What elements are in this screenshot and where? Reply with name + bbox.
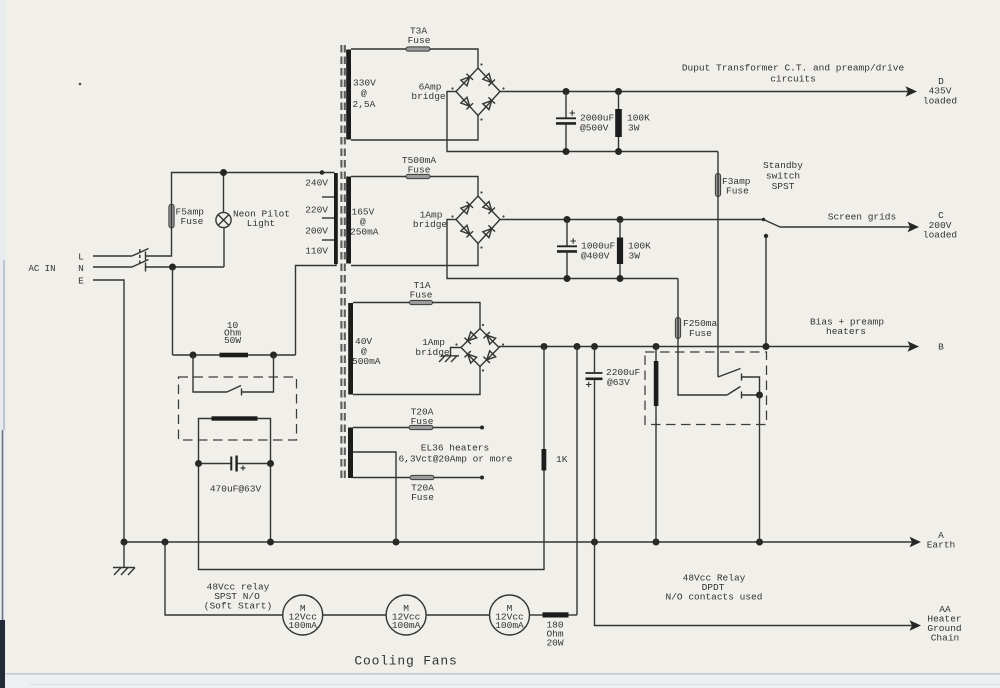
svg-text:100mA: 100mA bbox=[392, 620, 421, 631]
svg-text:50W: 50W bbox=[224, 335, 241, 346]
svg-text:N: N bbox=[78, 263, 84, 274]
junction R3 top node bbox=[617, 216, 624, 223]
junction R2 top node bbox=[615, 88, 622, 95]
wire relay feed down-right to 1K bbox=[199, 464, 545, 570]
transformer T1 heater winding bbox=[348, 428, 353, 479]
relay RL1 coil leads bbox=[199, 419, 271, 464]
wire heater center tap bbox=[353, 452, 396, 542]
relay RL2 coil top lead bbox=[655, 347, 657, 362]
wire M2 to M3 bbox=[426, 614, 489, 616]
junction R3 bottom node bbox=[617, 275, 624, 282]
wire BR1 minus return bbox=[447, 92, 718, 152]
wire sec3 bottom to bridge bbox=[353, 367, 480, 395]
junction contacts common node bbox=[756, 392, 763, 399]
fuse F7 T1A body bbox=[410, 300, 433, 304]
wire F250ma to rail B bbox=[677, 339, 679, 347]
junction C2 top node bbox=[564, 216, 571, 223]
svg-text:100mA: 100mA bbox=[288, 620, 317, 631]
svg-text:6,3Vct@20Amp or more: 6,3Vct@20Amp or more bbox=[398, 454, 512, 465]
bridge BR1 terminal marks bbox=[480, 63, 482, 65]
resistor R3 100K top lead bbox=[619, 220, 621, 238]
svg-text:Fuse: Fuse bbox=[408, 164, 431, 175]
terminal heater top bbox=[480, 426, 484, 430]
wire N in bbox=[93, 266, 132, 268]
capacitor C3 bottom lead to earth bbox=[594, 380, 596, 542]
primary tap 220V tick bbox=[322, 196, 334, 198]
motor M3 bbox=[490, 595, 530, 635]
svg-text:3W: 3W bbox=[629, 251, 641, 262]
junction 470uF return node bbox=[267, 539, 274, 546]
svg-text:240V: 240V bbox=[305, 178, 328, 189]
arrow C bbox=[908, 222, 920, 232]
capacitor C2 1000uF plates bbox=[557, 245, 577, 247]
wire heater top to fuse bbox=[353, 427, 409, 429]
svg-text:Standby: Standby bbox=[763, 160, 803, 171]
junction cap left node bbox=[195, 460, 202, 467]
resistor R1 10 Ohm 50W body bbox=[220, 353, 249, 358]
svg-text:Fuse: Fuse bbox=[411, 492, 434, 503]
svg-text:E: E bbox=[78, 276, 84, 287]
ground symbol bbox=[113, 542, 135, 575]
svg-text:20W: 20W bbox=[546, 638, 563, 649]
junction relay coil return node bbox=[653, 539, 660, 546]
wire sec3 top to fuse bbox=[353, 302, 410, 304]
wire standby to rail B bbox=[765, 236, 767, 347]
resistor R5 1K body bbox=[542, 449, 547, 471]
svg-text:SPST: SPST bbox=[772, 181, 795, 192]
svg-text:200V: 200V bbox=[305, 226, 328, 237]
fuse F8 T20A lower body bbox=[410, 475, 434, 479]
svg-text:switch: switch bbox=[766, 171, 800, 182]
switch SW1 N contact tick bbox=[145, 263, 147, 272]
wire sec2 top to fuse bbox=[351, 176, 406, 178]
junction N node bbox=[169, 264, 176, 271]
relay RL2 contact 1 tick bbox=[741, 374, 743, 381]
svg-text:250mA: 250mA bbox=[350, 227, 379, 238]
relay RL2 coil body bbox=[654, 361, 659, 406]
resistor R4 180 Ohm body bbox=[543, 612, 569, 617]
svg-text:circuits: circuits bbox=[770, 74, 816, 85]
svg-text:3W: 3W bbox=[628, 123, 640, 134]
svg-text:AC IN: AC IN bbox=[28, 264, 55, 274]
relay RL1 contact tick bbox=[241, 389, 243, 396]
wire contacts common to earth bbox=[759, 395, 761, 542]
wire heater bottom out bbox=[434, 477, 482, 479]
bridge rectifier BR2 1Amp bbox=[456, 196, 500, 244]
arrow B bbox=[908, 341, 920, 351]
relay RL2 contact 2 tick bbox=[741, 392, 743, 399]
switch SW1 mechanical link bbox=[139, 249, 141, 266]
fuse F2 F3amp top lead bbox=[717, 152, 719, 174]
wire contact right leg bbox=[242, 355, 274, 392]
junction soft-start right node bbox=[270, 352, 277, 359]
arrow AA bbox=[910, 620, 922, 630]
wire BR3 plus to ground bbox=[451, 348, 462, 356]
arrow A bbox=[910, 537, 922, 547]
primary tap 110V tick bbox=[322, 239, 334, 241]
junction cap right node bbox=[267, 460, 274, 467]
wire M3 to resistor bbox=[530, 614, 543, 616]
fuse F6 T500mA body bbox=[406, 174, 430, 178]
wire F3amp to relay contact bbox=[717, 197, 719, 378]
neon pilot light NE1 bbox=[216, 212, 231, 227]
wire BR2 minus return bbox=[447, 220, 678, 279]
wire sec1 top to fuse bbox=[351, 48, 406, 50]
svg-text:@400V: @400V bbox=[581, 251, 610, 262]
primary tap 200V tick bbox=[322, 217, 334, 219]
rail D bbox=[500, 91, 908, 93]
svg-text:Earth: Earth bbox=[927, 540, 956, 551]
transformer T1 core bbox=[341, 45, 344, 481]
wire contact left leg bbox=[193, 355, 227, 392]
svg-text:110V: 110V bbox=[305, 246, 328, 257]
switch SW2 standby blade bbox=[764, 220, 781, 228]
wire contact 1 right leg bbox=[742, 377, 760, 395]
rail C left segment bbox=[500, 219, 764, 221]
capacitor C4 470uF plates bbox=[230, 457, 232, 471]
wire fuse to bridge top bbox=[430, 177, 478, 197]
wire neon upper lead bbox=[223, 173, 225, 213]
wire heater bottom to fuse bbox=[353, 477, 410, 479]
capacitor C1 polarity plus bbox=[570, 110, 576, 116]
capacitor C4 470uF wire right bbox=[238, 463, 271, 465]
junction fans return node bbox=[574, 343, 581, 350]
resistor R2 100K top lead bbox=[618, 92, 620, 110]
bridge rectifier BR1 6Amp bbox=[456, 68, 500, 116]
svg-text:Fuse: Fuse bbox=[181, 216, 204, 227]
relay RL2 DPDT enclosure bbox=[645, 352, 767, 425]
fuse F4 T20A upper body bbox=[409, 425, 433, 429]
wire primary bottom return bbox=[296, 264, 337, 355]
svg-text:Chain: Chain bbox=[931, 633, 960, 644]
junction soft-start left node bbox=[190, 352, 197, 359]
wire cap right leg to earth bbox=[270, 464, 272, 543]
wire neon lower lead bbox=[223, 228, 225, 267]
svg-text:heaters: heaters bbox=[826, 326, 866, 337]
wire E in bbox=[93, 280, 124, 542]
switch SW1 mains N pole blade bbox=[132, 260, 149, 268]
motor M1 bbox=[283, 595, 323, 635]
svg-text:loaded: loaded bbox=[923, 230, 957, 241]
capacitor C1 2000uF top lead bbox=[565, 92, 567, 118]
svg-text:loaded: loaded bbox=[923, 96, 957, 107]
resistor R3 100K body bbox=[617, 238, 623, 265]
resistor R2 bottom lead bbox=[618, 137, 620, 152]
capacitor C4 polarity plus bbox=[241, 466, 246, 471]
wire sec1 bottom to bridge bbox=[351, 116, 478, 141]
svg-text:Fuse: Fuse bbox=[411, 416, 434, 427]
junction relay contact return node bbox=[756, 539, 763, 546]
svg-text:1K: 1K bbox=[556, 454, 568, 465]
capacitor C3 polarity plus bbox=[586, 382, 592, 388]
wire fuse to bridge top bbox=[433, 303, 481, 329]
wire L to fuse bbox=[146, 228, 172, 256]
bridge BR2 terminal marks bbox=[480, 191, 482, 193]
bridge rectifier BR3 1Amp bias bbox=[461, 329, 499, 367]
transformer T1 secondary 330V winding bbox=[346, 50, 351, 140]
fuse F3 F250ma top lead bbox=[677, 279, 679, 318]
capacitor C4 470uF wire left bbox=[199, 463, 231, 465]
ground symbol bias bridge bbox=[439, 356, 459, 362]
capacitor C3 2200uF plates bbox=[586, 372, 603, 374]
wire N drop to soft-start bbox=[172, 267, 174, 355]
resistor R3 bottom lead bbox=[619, 264, 621, 279]
relay RL1 contact blade bbox=[227, 386, 241, 393]
junction neon top node bbox=[220, 169, 227, 176]
junction heater CT node bbox=[393, 539, 400, 546]
junction R2 bottom node bbox=[615, 148, 622, 155]
wire fans feed bbox=[165, 542, 283, 615]
svg-text:(Soft Start): (Soft Start) bbox=[204, 601, 272, 612]
fuse F5amp body bbox=[169, 204, 174, 228]
svg-text:@63V: @63V bbox=[607, 377, 630, 388]
switch SW2 lower terminal bbox=[764, 234, 768, 238]
svg-text:Screen grids: Screen grids bbox=[828, 212, 896, 223]
svg-text:Fuse: Fuse bbox=[689, 328, 712, 339]
rail B bbox=[499, 346, 910, 348]
wire contact 2 feed from rail B bbox=[678, 347, 727, 396]
svg-text:Fuse: Fuse bbox=[408, 35, 431, 46]
junction standby drop node bbox=[763, 343, 770, 350]
junction C2 bottom node bbox=[564, 275, 571, 282]
bridge BR3 terminal marks bbox=[482, 324, 484, 326]
capacitor C2 bottom lead bbox=[566, 253, 568, 279]
wire N to junction bbox=[146, 266, 225, 268]
resistor R1 10 Ohm 50W rail bbox=[173, 354, 296, 356]
relay RL2 coil return to earth bbox=[655, 406, 657, 542]
capacitor C2 1000uF top lead bbox=[566, 220, 568, 246]
svg-text:Fuse: Fuse bbox=[410, 290, 433, 301]
svg-text:bridge: bridge bbox=[411, 91, 446, 102]
fuse F3 F250ma body bbox=[675, 318, 680, 339]
fuse F1 T3A body bbox=[406, 47, 430, 51]
svg-text:Light: Light bbox=[247, 218, 276, 229]
arrow D bbox=[906, 86, 918, 96]
capacitor C2 polarity plus bbox=[571, 238, 577, 244]
wire L in bbox=[93, 255, 132, 257]
junction C1 bottom node bbox=[563, 148, 570, 155]
transformer T1 secondary 40V winding bbox=[348, 303, 353, 395]
earth rail bbox=[124, 541, 912, 543]
svg-text:220V: 220V bbox=[305, 205, 328, 216]
svg-text:EL36 heaters: EL36 heaters bbox=[421, 443, 489, 454]
switch SW1 mains L pole blade bbox=[132, 249, 149, 257]
junction relay coil node bbox=[653, 343, 660, 350]
svg-text:L: L bbox=[78, 252, 84, 263]
svg-text:N/O contacts used: N/O contacts used bbox=[666, 592, 763, 603]
resistor R2 100K body bbox=[615, 109, 622, 137]
wire M1 to M2 bbox=[323, 614, 386, 616]
svg-text:Cooling Fans: Cooling Fans bbox=[354, 654, 457, 669]
relay RL2 contact 1 blade bbox=[718, 369, 741, 378]
svg-text:2,5A: 2,5A bbox=[353, 99, 376, 110]
junction fans feed node bbox=[162, 539, 169, 546]
svg-text:470uF@63V: 470uF@63V bbox=[210, 484, 262, 495]
svg-text:@: @ bbox=[361, 88, 367, 99]
wire fuse to primary top bbox=[172, 173, 335, 205]
wire fuse to bridge top bbox=[430, 49, 478, 68]
junction AA drop node bbox=[591, 539, 598, 546]
transformer T1 primary winding bbox=[334, 173, 338, 264]
switch SW1 L contact tick bbox=[145, 252, 147, 261]
svg-text:Fuse: Fuse bbox=[726, 186, 749, 197]
capacitor C3 2200uF top lead bbox=[594, 347, 596, 373]
junction earth-E node bbox=[121, 539, 128, 546]
wire contact 2 right leg bbox=[742, 394, 760, 396]
junction 240V tap node bbox=[320, 170, 325, 175]
capacitor C1 bottom lead bbox=[565, 125, 567, 152]
svg-text:330V: 330V bbox=[353, 78, 376, 89]
junction 1K top node bbox=[541, 343, 548, 350]
wire sec2 bottom to bridge bbox=[351, 244, 478, 266]
relay RL2 contact 2 blade bbox=[727, 387, 741, 396]
junction C3 top node bbox=[591, 343, 598, 350]
junction C1 top node bbox=[563, 88, 570, 95]
svg-text:100mA: 100mA bbox=[495, 620, 524, 631]
capacitor C1 2000uF plates bbox=[556, 117, 576, 119]
resistor R5 1K top lead bbox=[543, 347, 545, 450]
wire resistor to riser bbox=[569, 614, 578, 616]
transformer T1 secondary 165V winding bbox=[346, 177, 351, 264]
svg-text:bridge: bridge bbox=[413, 219, 448, 230]
terminal heater bottom bbox=[480, 476, 484, 480]
svg-text:Duput Transformer C.T. and pre: Duput Transformer C.T. and preamp/drive bbox=[682, 63, 905, 74]
fuse F2 F3amp body bbox=[715, 174, 720, 197]
svg-text:@500V: @500V bbox=[580, 123, 609, 134]
wire AA drop bbox=[595, 542, 913, 626]
wire fans return riser bbox=[576, 347, 578, 616]
motor M2 bbox=[386, 595, 426, 635]
relay RL1 coil body bbox=[212, 416, 258, 420]
svg-text:500mA: 500mA bbox=[352, 356, 381, 367]
relay RL1 soft-start enclosure bbox=[179, 377, 297, 440]
svg-text:B: B bbox=[938, 342, 944, 353]
wire heater top out bbox=[433, 427, 482, 429]
rail C right segment bbox=[780, 226, 910, 228]
